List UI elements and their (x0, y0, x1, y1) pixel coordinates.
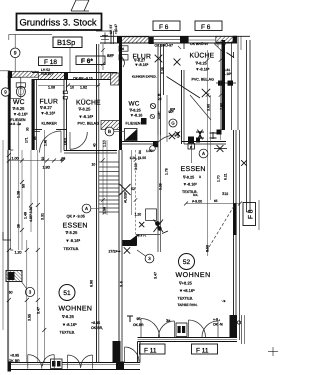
door leaf (53, 355, 55, 369)
svg-text:∥1.55: ∥1.55 (138, 156, 146, 160)
door leaf (27, 355, 29, 369)
svg-text:94: 94 (138, 150, 142, 154)
svg-text:10: 10 (70, 86, 74, 90)
window glazing line 2 (189, 39, 216, 41)
svg-text:22: 22 (158, 97, 162, 101)
sill line left overhang (0, 70, 10, 72)
svg-text:+10.47: +10.47 (114, 24, 118, 34)
svg-text:1.49: 1.49 (24, 212, 28, 219)
svg-text:TEXTILB.: TEXTILB. (64, 247, 80, 251)
left top wall inner line (32, 79, 117, 81)
far right dimension chain (258, 200, 260, 230)
svg-text:QK ≠ ·9.05: QK ≠ ·9.05 (67, 215, 85, 219)
leader B (114, 131, 124, 133)
svg-text:∇-8.25: ∇-8.25 (61, 314, 75, 319)
svg-text:65: 65 (214, 199, 218, 203)
svg-text:1.61: 1.61 (224, 68, 230, 72)
svg-text:F 11: F 11 (196, 348, 209, 355)
svg-text:80⁵: 80⁵ (170, 108, 176, 112)
hatched corner block left-unit top wall / stair wall (111, 73, 120, 85)
svg-text:1.59: 1.59 (176, 132, 180, 138)
thin dim line below kitchen right (191, 144, 193, 163)
svg-text:00: 00 (121, 47, 125, 51)
top wall outer line (100, 35, 250, 37)
double door arcs right section pair 1 (141, 319, 160, 338)
X marks in right kitchen (202, 89, 210, 97)
svg-text:3.47: 3.47 (37, 307, 41, 314)
svg-text:F 6: F 6 (159, 24, 169, 31)
black furniture blocks on staircase wall (52 side) (123, 240, 137, 246)
stair direction cross (120, 184, 131, 195)
double door arcs (second pair) (68, 355, 81, 368)
dim chain2 (220, 50, 222, 140)
title box Grundriss 3. Stock (17, 14, 102, 31)
room number box F 6 (left) (153, 21, 180, 31)
door leaf (92, 355, 94, 369)
tick cross right of B1Sp (102, 35, 108, 37)
svg-text:▼-8.16⁵: ▼-8.16⁵ (183, 183, 197, 187)
svg-text:1.70: 1.70 (217, 175, 221, 182)
connector wall from B1Sp down to top wall (110, 31, 112, 44)
middle wall lower inner (160, 135, 162, 252)
svg-text:PVC. BELAG: PVC. BELAG (78, 122, 100, 126)
right unit right wall upper (thick) (222, 40, 226, 130)
leader 3 middle (137, 250, 146, 256)
svg-text:≠·9.00: ≠·9.00 (192, 200, 202, 204)
svg-text:6.90: 6.90 (90, 280, 94, 287)
door leaf (124, 347, 126, 363)
svg-text:8ƵF: 8ƵF (107, 53, 115, 58)
svg-text:6.21: 6.21 (224, 173, 228, 180)
wall pier (149, 37, 154, 44)
sill mark 95 OK BR (127, 316, 133, 322)
svg-text:B: B (108, 129, 111, 134)
circled 3 (middle) with leader (145, 254, 154, 263)
svg-text:1.20: 1.20 (15, 251, 22, 255)
svg-text:WC: WC (13, 99, 25, 106)
svg-text:ESSEN: ESSEN (181, 166, 206, 173)
bottom wall left section (window band) (9, 362, 140, 364)
door leaf (188, 320, 190, 338)
svg-text:1.05⁵: 1.05⁵ (146, 149, 154, 153)
staircase dim chain lines (102, 140, 104, 215)
svg-text:FLIESEN: FLIESEN (126, 122, 141, 126)
wall pier corner right (233, 36, 237, 43)
svg-text:3.31: 3.31 (41, 213, 45, 220)
left outer wall inner line (10, 150, 12, 250)
KUECHE right wall / staircase left wall (96, 44, 98, 362)
wall pier (117, 36, 121, 44)
wall below KUECHE (left unit) (64, 150, 117, 152)
angled mark (162, 231, 168, 234)
door arc FLUR->ESSEN (left unit) (40, 131, 62, 153)
svg-text:▼-8.16⁵: ▼-8.16⁵ (62, 322, 77, 327)
svg-text:∇-8.25: ∇-8.25 (12, 106, 26, 111)
svg-text:≠ϳ·∧↑·↓: ≠ϳ·∧↑·↓ (137, 234, 147, 238)
double door arcs (left pair) (28, 355, 42, 369)
svg-text:A: A (85, 206, 88, 211)
door leaf (217, 321, 219, 338)
svg-text:3: 3 (199, 175, 201, 179)
circled 3 (left) with leader from pier (25, 287, 34, 296)
circled B (105, 127, 114, 136)
svg-text:28: 28 (17, 224, 21, 228)
svg-text:F 6: F 6 (201, 24, 211, 31)
circled A (right) (199, 149, 208, 158)
svg-text:1.20: 1.20 (130, 156, 137, 160)
right KUECHE bottom wall (182, 141, 227, 143)
svg-text:4.85⁵ 3.36: 4.85⁵ 3.36 (29, 207, 33, 222)
left outer wall (thick) (8, 76, 11, 150)
fixture tick y55 (227, 53, 235, 58)
svg-text:≠·8··2⌀: ≠·8··2⌀ (11, 122, 21, 126)
top wall inner line (100, 42, 237, 44)
svg-text:+8.95: +8.95 (91, 321, 100, 325)
tick cross on top wall at x105 (101, 39, 109, 41)
bottom wall right section (138, 337, 238, 339)
svg-text:∇-8.25: ∇-8.25 (182, 176, 194, 180)
svg-text:+8.95: +8.95 (10, 354, 19, 358)
wall pier (64, 73, 68, 80)
svg-text:1.9D: 1.9D (43, 166, 51, 170)
svg-text:10: 10 (92, 163, 96, 167)
svg-text:3.55: 3.55 (28, 314, 32, 321)
svg-text:WC: WC (129, 101, 140, 108)
svg-text:1.03⁵: 1.03⁵ (157, 111, 161, 119)
svg-text:2.08: 2.08 (161, 67, 165, 74)
circled 52 (179, 254, 195, 270)
left wall hatched pier at ESSEN/WOHNEN window band (6, 271, 22, 282)
middle unit FLUR right wall x164 (163, 44, 165, 95)
svg-text:▼-8.16⁵: ▼-8.16⁵ (41, 111, 56, 116)
svg-text:OK.BR: OK.BR (133, 323, 144, 327)
svg-text:7.60: 7.60 (220, 103, 224, 110)
right outer wall lower (233, 130, 235, 338)
right balcony outer lines (246, 40, 248, 212)
shower triangle (middle WC) (125, 129, 138, 141)
section line with circled 9 (9, 33, 52, 35)
top wall hatched band (right building section) (121, 37, 149, 43)
door leaf (174, 321, 176, 338)
svg-text:1.08: 1.08 (48, 86, 55, 90)
tick (184, 202, 188, 206)
svg-text:∇-8.25: ∇-8.25 (129, 108, 141, 112)
black fixture block (217, 130, 222, 135)
door leaf FLUR left (60, 131, 62, 153)
svg-text:3.33: 3.33 (134, 163, 138, 170)
balcony end (247, 211, 251, 213)
circled G (169, 119, 177, 127)
left outer wall lower line (7, 150, 9, 362)
right KUECHE left wall (181, 70, 183, 144)
leader A (91, 208, 99, 210)
svg-text:40: 40 (93, 143, 97, 147)
svg-text:TEXTILB.: TEXTILB. (178, 297, 194, 301)
svg-text:KLINKER: KLINKER (42, 122, 58, 126)
svg-text:1.82: 1.82 (80, 86, 87, 90)
pier with black squares between doors (51, 359, 63, 369)
window sill lines left wall y150-250 (11, 249, 14, 251)
middle wall lower (157, 135, 159, 252)
svg-text:30: 30 (26, 127, 30, 131)
kitchen appliance symbols (right unit, on bottom wall) (196, 130, 204, 140)
svg-text:+·8.₁: +·8.₁ (213, 318, 221, 322)
svg-text:F 8: F 8 (248, 209, 255, 219)
svg-text:51: 51 (63, 290, 71, 297)
svg-text:Grundriss 3. Stock: Grundriss 3. Stock (20, 17, 97, 28)
svg-text:▼-8.16⁵: ▼-8.16⁵ (135, 63, 149, 67)
svg-text:52: 52 (183, 259, 191, 266)
X mark near FLUR (155, 55, 163, 63)
entry door jambs from staircase (119, 46, 128, 51)
top-left wall hatched band (left section upper) (10, 71, 38, 77)
thin wall line x167 (166, 95, 168, 142)
svg-text:∇+8.25: ∇+8.25 (178, 281, 193, 286)
kitchen counter black fill on bottom wall (188, 137, 194, 144)
svg-text:1.00: 1.00 (12, 157, 19, 161)
WC/FLUR divider inner line (36, 79, 38, 150)
X fixture at wall x220 y148 (217, 145, 224, 152)
svg-text:9: 9 (14, 51, 17, 57)
WC shower tray outline (10, 77, 20, 98)
door leaf KUECHE left (69, 132, 71, 149)
staircase right wall lower (118, 150, 120, 370)
svg-text:OK ·ℕ: OK ·ℕ (213, 323, 223, 327)
room number box F 8 (rotated, right side) (243, 203, 256, 226)
label box B1Sp (53, 37, 82, 48)
svg-text:∇·8.25: ∇·8.25 (65, 230, 79, 235)
svg-text:OK BR: OK BR (9, 359, 21, 363)
tick (238, 202, 242, 206)
window glazing line 1 (154, 38, 180, 40)
svg-text:G: G (171, 121, 174, 126)
right wall black ends at bottom-right (230, 315, 238, 338)
svg-text:1.78: 1.78 (165, 168, 169, 175)
middle unit wall x158 (157, 44, 159, 135)
small table symbol (188, 144, 195, 150)
svg-text:3.47: 3.47 (154, 272, 158, 279)
dim line (102, 44, 104, 70)
svg-text:1.28: 1.28 (17, 191, 21, 198)
svg-text:TAP.BE RHN.: TAP.BE RHN. (178, 303, 198, 307)
svg-text:50: 50 (22, 184, 26, 188)
leader 3 (21, 281, 27, 289)
smudged dim text row y234 (136, 234, 160, 236)
door arc KUECHE->ESSEN (left unit) (70, 132, 87, 149)
svg-text:⊼22: ⊼22 (222, 192, 228, 196)
circled 51 (59, 285, 75, 301)
black wall stub at end of staircase strip (113, 341, 121, 362)
svg-text:171: 171 (25, 137, 29, 143)
right wall black segment near F8 (233, 203, 237, 235)
black duct bits left of shaft (141, 118, 147, 125)
jamb T mark below pier (182, 42, 187, 44)
svg-text:8: 8 (61, 158, 63, 162)
svg-text:OK BRÜ-97: OK BRÜ-97 (190, 42, 209, 46)
step connector between bottom walls (137, 342, 139, 363)
svg-text:AUSSP.: AUSSP. (124, 191, 128, 203)
small symbols between WC and ESSEN (169, 133, 175, 139)
svg-text:+10.67²: +10.67² (41, 72, 53, 76)
svg-text:∇-8.25: ∇-8.25 (78, 107, 92, 112)
svg-text:PVC. BEL.AG: PVC. BEL.AG (192, 78, 215, 82)
staircase treads (99, 161, 119, 163)
svg-text:▼-8.16⁵: ▼-8.16⁵ (196, 68, 210, 72)
door swing diagonal 2 (190, 95, 211, 120)
svg-text:▼-8.16: ▼-8.16 (130, 114, 142, 118)
wall tie marks on right wall (216, 82, 236, 84)
staircase right wall lower inner (121, 150, 123, 370)
svg-text:KÜCHE: KÜCHE (76, 99, 101, 107)
dashed ceiling-slope diagonal (52) (206, 206, 234, 252)
wall below FLUR (left unit) with door opening (35, 129, 42, 131)
svg-text:▼-8.16⁵: ▼-8.16⁵ (13, 111, 28, 116)
svg-text:A: A (202, 151, 205, 156)
left section top wall band (38, 73, 64, 80)
svg-text:F 6*: F 6* (81, 58, 93, 65)
svg-text:3.60: 3.60 (207, 104, 211, 111)
svg-text:∇-8.27: ∇-8.27 (39, 105, 53, 110)
svg-text:B1Sp: B1Sp (57, 38, 75, 47)
svg-text:OK·BR·-9.15: OK·BR·-9.15 (73, 77, 93, 81)
dim chain3 (210, 95, 212, 200)
svg-text:∵ƶ: ∵ƶ (222, 299, 226, 303)
svg-text:1.16⁵: 1.16⁵ (224, 72, 233, 76)
pier between right doors with black squares (176, 323, 187, 337)
leader from B1Sp to wall (69, 48, 71, 73)
fixture tick y55b (233, 52, 235, 58)
door jamb marks FLUR/KUECHE (63, 91, 67, 94)
svg-text:3. 6: 3. 6 (120, 281, 124, 287)
room number box F 11 (left) (140, 344, 166, 354)
svg-text:ESSEN: ESSEN (63, 223, 88, 230)
room number box F 6 (right) (195, 21, 222, 31)
WC fixtures: cistern and toilet bowl (16, 83, 25, 87)
circled 9 (left wall) (1, 88, 9, 96)
svg-text:▼-8.16⁵: ▼-8.16⁵ (79, 114, 94, 119)
tick marks on left chains (7, 153, 11, 157)
left top wall outer line (32, 72, 117, 74)
pier left end (8, 362, 12, 372)
right wall inner line upper (231, 43, 233, 130)
tick cluster above kitchen right (214, 43, 222, 45)
dim ticks top area (101, 48, 105, 52)
right facade inner line (240, 36, 242, 50)
open door leaf diagonal (middle FLUR) (167, 77, 201, 99)
right unit: dim line 9.00 (186, 203, 240, 205)
svg-text:95: 95 (33, 136, 37, 140)
svg-text:▼·8.16⁵: ▼·8.16⁵ (66, 238, 81, 243)
svg-text:27/2≠⇝: 27/2≠⇝ (109, 250, 121, 254)
svg-text:WOHNEN: WOHNEN (59, 306, 93, 313)
WC/FLUR divider wall (32, 79, 35, 150)
wall pier left corner (8, 71, 12, 78)
svg-text:F 18: F 18 (44, 59, 57, 66)
svg-text:0.K.: 0.K. (193, 193, 199, 197)
svg-text:WOHNEN: WOHNEN (176, 272, 211, 279)
wall pier (180, 37, 189, 44)
circled A (left) with leader (82, 204, 91, 213)
double door arcs right section pair 2 (189, 320, 206, 337)
corner step mark left x3 y232 (3, 232, 11, 240)
pier black at x116 (116, 362, 124, 371)
svg-text:3.38: 3.38 (159, 183, 163, 190)
svg-text:F 11: F 11 (144, 348, 157, 355)
X mark at wall x141 (139, 222, 144, 227)
room number box F 11 (right) (192, 344, 218, 354)
room number box F 6* (76, 56, 105, 65)
svg-text:UKD: UKD (64, 137, 68, 145)
roof vent detail above title (71, 0, 89, 11)
room number box F 18 (39, 57, 63, 66)
corner mark (215, 45, 222, 52)
B1Sp stub wall (96, 30, 111, 32)
svg-text:92: 92 (41, 157, 45, 161)
svg-text:TEXTILB.: TEXTILB. (60, 331, 76, 335)
FLUR/KUECHE divider wall (63, 80, 65, 151)
svg-text:KLINKER EXPED.: KLINKER EXPED. (132, 75, 157, 79)
tick (178, 46, 181, 49)
left vertical dim chain lines (2, 140, 4, 330)
scissor symbols (155, 221, 160, 226)
middle unit WC bottom wall (122, 141, 158, 143)
single door arc near x124-139 (125, 347, 140, 362)
svg-text:60: 60 (9, 291, 13, 295)
svg-text:∇-8.25: ∇-8.25 (195, 62, 207, 66)
svg-text:OK BR,: OK BR, (91, 326, 103, 330)
dim chain (207, 50, 209, 256)
svg-text:95: 95 (137, 317, 141, 321)
svg-text:1.46: 1.46 (44, 140, 48, 146)
right facade line (237, 36, 239, 130)
horizontal dim line y160.5 (8, 160, 64, 162)
staircase right wall (thick) (119, 37, 122, 150)
svg-text:3ƶ: 3ƶ (166, 318, 170, 323)
svg-text:6.50: 6.50 (206, 245, 210, 252)
door leaf (67, 355, 69, 369)
svg-text:▼+8.16⁵: ▼+8.16⁵ (179, 288, 195, 293)
svg-text:1.20: 1.20 (135, 213, 142, 217)
furniture rect in ESSEN 52 corner (146, 209, 157, 221)
hatched landing wall at stair top (101, 121, 121, 130)
door arc into ESSEN (middle unit) (157, 135, 181, 144)
plumbing circles right of WC (150, 103, 155, 108)
svg-text:KÜCHE: KÜCHE (190, 52, 215, 60)
plus tick bottom right corner (268, 351, 278, 353)
door leaf (140, 319, 142, 338)
